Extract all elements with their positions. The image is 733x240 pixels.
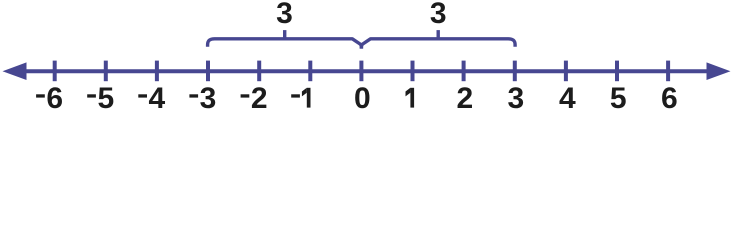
tick -6 — [53, 61, 57, 82]
brace from -3 to 0 — [208, 39, 362, 49]
label 5 — [610, 82, 627, 115]
brace 0..3 midpoint tick — [437, 30, 440, 39]
left arrowhead — [3, 62, 27, 80]
label -2 — [241, 82, 268, 115]
tick -3 — [206, 61, 210, 82]
tick -4 — [155, 61, 159, 82]
label -4 — [138, 82, 165, 115]
right arrowhead — [707, 62, 731, 80]
label 4 — [559, 82, 576, 115]
tick 6 — [666, 61, 670, 82]
brace -3..0 midpoint tick — [283, 30, 286, 39]
svg-text:6: 6 — [661, 82, 678, 114]
tick 5 — [615, 61, 619, 82]
label 0 — [354, 82, 371, 115]
tick 0 — [359, 61, 363, 82]
label 2 — [456, 82, 473, 115]
svg-text:3: 3 — [507, 82, 524, 114]
tick 4 — [564, 61, 568, 82]
svg-text:3: 3 — [200, 82, 217, 114]
tick -1 — [308, 61, 312, 82]
svg-text:2: 2 — [456, 82, 473, 114]
number line shaft — [18, 69, 715, 73]
tick 1 — [411, 61, 415, 82]
label -1 — [291, 88, 310, 108]
brace label 3 (left span) — [276, 0, 293, 30]
svg-text:5: 5 — [97, 82, 114, 114]
svg-text:4: 4 — [559, 82, 576, 114]
label 3 — [507, 82, 524, 115]
brace from 0 to 3 — [361, 39, 515, 49]
svg-text:5: 5 — [610, 82, 627, 114]
svg-text:3: 3 — [276, 0, 293, 30]
tick -2 — [257, 61, 261, 82]
label 1 — [406, 88, 415, 108]
svg-text:3: 3 — [430, 0, 447, 30]
svg-text:0: 0 — [354, 82, 371, 114]
tick -5 — [104, 61, 108, 82]
brace label 3 (right span) — [430, 0, 447, 30]
label -3 — [189, 82, 216, 115]
tick 3 — [513, 61, 517, 82]
svg-text:2: 2 — [251, 82, 268, 114]
svg-text:6: 6 — [46, 82, 63, 114]
tick 2 — [462, 61, 466, 82]
label 6 — [661, 82, 678, 115]
label -6 — [36, 82, 63, 115]
svg-text:4: 4 — [149, 82, 166, 114]
label -5 — [87, 82, 114, 115]
